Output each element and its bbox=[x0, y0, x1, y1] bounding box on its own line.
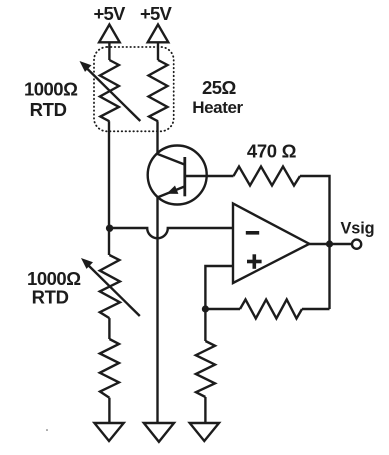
wire: transistor emitter down to ground bbox=[156, 198, 158, 424]
stray scan speck bbox=[46, 429, 48, 431]
svg-text:Vsig: Vsig bbox=[341, 220, 375, 238]
wire: 470 ohm to output node (corner) bbox=[300, 176, 330, 309]
lower-left resistor bbox=[100, 339, 119, 398]
+5V supply symbol (right) bbox=[148, 25, 169, 43]
svg-text:25Ω: 25Ω bbox=[202, 77, 237, 98]
feedback resistor bbox=[240, 300, 302, 319]
svg-text:+5V: +5V bbox=[93, 3, 125, 24]
ground symbol (right) bbox=[190, 423, 219, 441]
output junction dot bbox=[326, 240, 333, 247]
svg-text:RTD: RTD bbox=[30, 99, 67, 120]
RTD2 variable arrow bbox=[81, 258, 140, 316]
svg-text:+5V: +5V bbox=[140, 3, 172, 24]
dotted enclosure box bbox=[94, 47, 174, 131]
svg-text:1000Ω: 1000Ω bbox=[24, 78, 78, 99]
lower-right resistor bbox=[196, 341, 215, 397]
wire: feedback resistor to output column bbox=[302, 308, 330, 310]
resistor RTD2 1000 ohm (lower) bbox=[100, 255, 120, 318]
op-amp U1 bbox=[233, 204, 309, 284]
wire: RTD2 to lower-left resistor bbox=[108, 318, 110, 339]
svg-text:RTD: RTD bbox=[32, 287, 69, 308]
wire: lower-right resistor to ground bbox=[204, 397, 206, 423]
wire: op-amp output bbox=[309, 243, 351, 245]
wire: lower-left resistor to ground bbox=[108, 398, 110, 423]
wire: right supply to heater bbox=[157, 42, 159, 60]
junction A dot bbox=[106, 225, 113, 232]
resistor 470 ohm bbox=[234, 167, 301, 186]
wire: heater to transistor collector bbox=[156, 121, 158, 153]
resistor RTD1 1000 ohm (upper, in box) bbox=[100, 60, 119, 121]
resistor heater 25 ohm (in box) bbox=[149, 60, 168, 121]
transistor Q1 (PNP, circle) bbox=[148, 146, 207, 205]
wire: junction A down to RTD2 bbox=[108, 228, 110, 255]
Vsig terminal circle bbox=[352, 240, 361, 249]
wire: left column, box to junction A bbox=[108, 121, 110, 228]
node B junction dot bbox=[202, 305, 209, 312]
ground symbol (left) bbox=[94, 423, 123, 441]
RTD1 variable arrow bbox=[80, 61, 141, 121]
svg-text:470 Ω: 470 Ω bbox=[247, 141, 297, 162]
svg-text:Heater: Heater bbox=[192, 98, 243, 117]
+5V supply symbol (left) bbox=[99, 25, 120, 43]
wire: transistor base to 470 ohm bbox=[185, 175, 234, 177]
ground symbol (middle) bbox=[144, 423, 174, 442]
wire: node B to feedback resistor bbox=[205, 308, 240, 310]
wire: left supply to RTD1 bbox=[108, 42, 110, 60]
wire: junction A to op-amp inverting input (with hop) bbox=[109, 228, 233, 238]
wire: node B down to lower-right resistor bbox=[204, 309, 206, 341]
wire: non-inverting input to node B bbox=[205, 266, 233, 309]
